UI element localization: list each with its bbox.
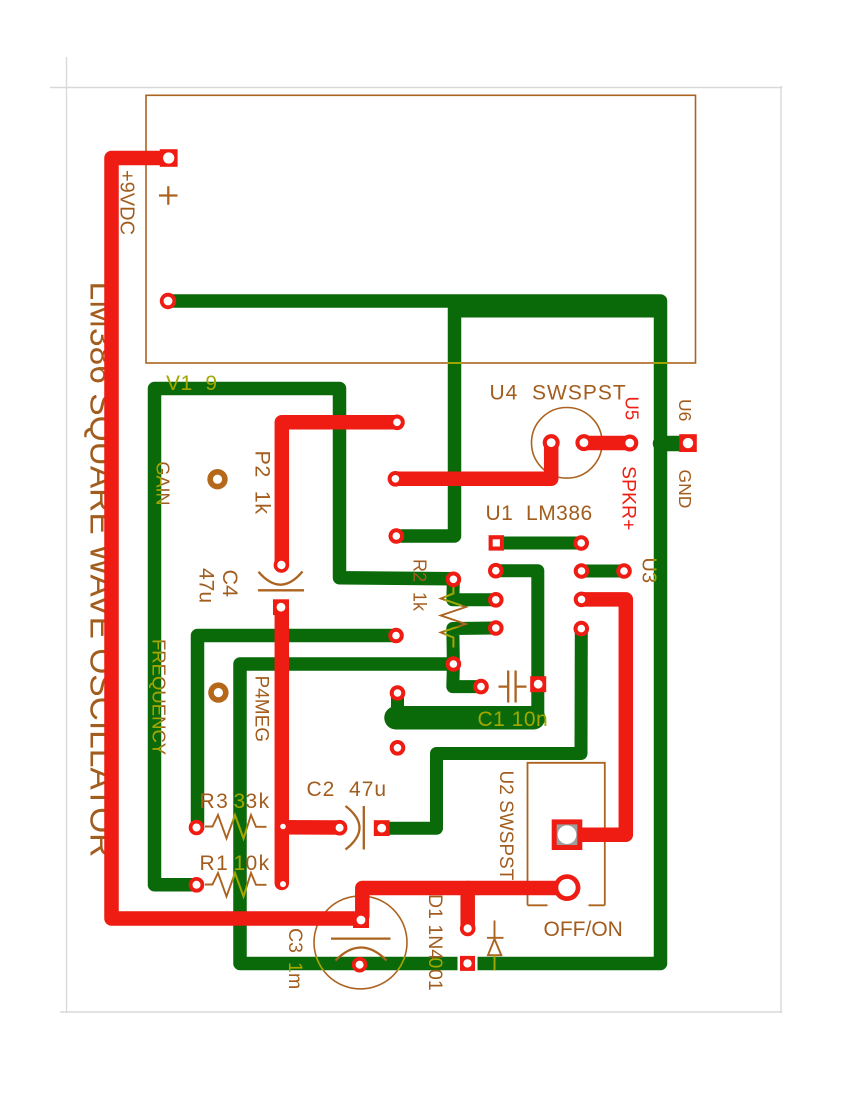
board outline top rectangle xyxy=(146,95,696,363)
via (396.3,536) xyxy=(389,528,405,544)
wire C3 pad up to OFF/ON and right to U2 round pad xyxy=(362,888,565,916)
wire inner parallel segment y=311.5 xyxy=(455,306,653,318)
via (397,422.3) xyxy=(389,415,405,431)
wire R2 top via to U1 pin3 left xyxy=(453,579,496,600)
pad U4 C / U5 SPKR+ xyxy=(621,435,638,452)
wire branch x=454.5 down to via(396.5,536) xyxy=(397,303,455,536)
donut pad FREQUENCY pot xyxy=(208,682,228,702)
diode D1 lead olive xyxy=(494,955,496,970)
svg-text:R1: R1 xyxy=(200,852,237,875)
pad U2 round OFF/ON xyxy=(554,874,581,901)
svg-text:V1 9: V1 9 xyxy=(166,372,218,395)
svg-text:U4 SWSPST: U4 SWSPST xyxy=(490,382,627,405)
svg-text:47u: 47u xyxy=(195,568,218,603)
pad C1 square xyxy=(530,676,546,692)
via R2 top (453.4,579.3) xyxy=(446,572,462,588)
pad U2 big square xyxy=(552,819,583,850)
svg-text:C4: C4 xyxy=(218,570,242,598)
resistor R1 zigzag xyxy=(205,873,267,897)
wire stub via(397.5,693) to bar xyxy=(391,693,404,710)
wire P2 top: corner to via(397,422) and down to C4 via xyxy=(282,422,397,563)
via (168,301) xyxy=(160,293,176,309)
switch U2 outline xyxy=(528,763,605,906)
pad +9VDC square xyxy=(160,149,178,167)
wire U4 pad B to pad C xyxy=(584,436,630,451)
svg-text:01: 01 xyxy=(424,969,446,991)
wire GND main loop: via(168,301) right, down right side, bottom, up left, to R2 bottom xyxy=(168,301,661,964)
svg-text:SPKR+: SPKR+ xyxy=(618,466,640,531)
via C3 center (359.6,964.7) xyxy=(352,957,368,973)
tick outline over green x=661 xyxy=(654,362,669,364)
via C2 left (339.6,827.7) xyxy=(332,820,348,836)
svg-text:R2 1k: R2 1k xyxy=(410,559,430,612)
via U1 pin6 right xyxy=(574,592,590,608)
wire U1 pin5 right to U2 square pad xyxy=(569,599,626,834)
svg-text:1: 1 xyxy=(284,962,306,973)
capacitor C4 plates xyxy=(258,589,304,591)
via (281,565) C4 top xyxy=(274,557,290,573)
via R3 left (196.5,827.5) xyxy=(189,820,205,836)
capacitor C3 circle olive part xyxy=(314,896,407,989)
wire U1 pin2 left down to C1 pad and bar xyxy=(496,571,538,716)
sheet border top xyxy=(50,87,783,89)
via (397.5,747.8) xyxy=(390,740,406,756)
svg-text:GND: GND xyxy=(675,470,695,509)
svg-text:R3: R3 xyxy=(200,790,237,813)
svg-text:U2 SWSPST: U2 SWSPST xyxy=(495,771,516,881)
via (397.5,693) xyxy=(390,685,406,701)
svg-text:+9VDC: +9VDC xyxy=(116,170,138,235)
olive overlays where silk crosses green copper xyxy=(205,363,668,989)
via U1 pin4 left xyxy=(488,620,504,636)
svg-text:C1 10n: C1 10n xyxy=(478,708,549,731)
sheet border right xyxy=(780,86,782,1013)
svg-text:0k: 0k xyxy=(246,852,271,875)
wire U1 pin7 via to via(624,571) xyxy=(582,565,625,578)
pad C4 bottom square xyxy=(273,599,289,615)
wire R2 bottom via to U1 pin4 left xyxy=(453,628,496,664)
svg-text:C3: C3 xyxy=(284,928,306,958)
svg-text:U6: U6 xyxy=(675,399,695,421)
via R2 bottom (453.4,664) xyxy=(446,656,462,672)
pad C3 bottom-left square xyxy=(353,912,369,928)
plus symbol xyxy=(159,186,178,205)
svg-text:U5: U5 xyxy=(622,397,643,421)
via (396,635.5) xyxy=(388,628,404,644)
via hole at T junction (283,826.5) xyxy=(280,824,286,830)
capacitor C1 plates xyxy=(499,671,527,703)
via U1 pin7 right xyxy=(574,563,590,579)
diode D1 symbol xyxy=(487,921,504,956)
capacitor C2 plates xyxy=(363,806,365,850)
wire +9VDC pad left, down, bottom to C3 pad xyxy=(112,158,360,919)
pad C2 square xyxy=(374,820,390,836)
sheet border left xyxy=(66,57,68,1013)
wire stub down to D1 via xyxy=(460,888,475,927)
via (624,571) xyxy=(616,563,632,579)
wire C4 pad down to R1 right via with T to C2 via xyxy=(275,608,290,883)
wire thick bar under C1 xyxy=(396,706,534,730)
svg-text:m: m xyxy=(284,973,306,989)
via R1 left (196.5,884.8) xyxy=(189,877,205,893)
svg-text:P2 1k: P2 1k xyxy=(251,451,275,515)
capacitor C3 plates xyxy=(331,937,391,939)
resistor R2 zigzag xyxy=(441,587,466,648)
svg-text:3k: 3k xyxy=(246,790,271,813)
svg-text:0: 0 xyxy=(424,958,446,969)
svg-text:OFF/ON: OFF/ON xyxy=(544,918,623,941)
via U1 pin5 right xyxy=(574,621,590,637)
resistor R2 zigzag olive part xyxy=(441,587,466,648)
via (395.4,478.8) xyxy=(388,471,404,487)
svg-text:U1 LM386: U1 LM386 xyxy=(486,502,593,525)
switch U4 circle xyxy=(532,408,603,479)
sheet border bottom xyxy=(60,1011,783,1013)
wire V1 loop: via(196.5,884.5) left leg up, top, down inner, to R2 top via xyxy=(155,389,454,885)
tick outline over green x=455 xyxy=(447,362,462,364)
via U1 pin3 left xyxy=(488,592,504,608)
wire FREQUENCY loop: via(196.5,827.5) up and right to via(396,635.5) xyxy=(198,636,397,828)
via (481,686.5) xyxy=(473,679,489,695)
pad U6 GND square xyxy=(679,434,697,452)
wire GND stub to U6 pad xyxy=(661,436,687,452)
pad U4 A xyxy=(543,434,560,451)
wire R2 bottom via down to via(481,686.5) xyxy=(453,664,481,687)
svg-text:P4MEG: P4MEG xyxy=(251,676,272,743)
wire U1 pin5 via down-left to C2 pad xyxy=(382,629,581,829)
via U1 pin2 left xyxy=(488,563,504,579)
resistor R3 zigzag xyxy=(205,815,267,839)
resistor R3 zigzag olive part xyxy=(205,815,267,839)
resistor R1 zigzag olive part xyxy=(205,873,267,897)
via D1 top (467.7,928.5) xyxy=(460,921,476,937)
pad U1 pin1 square xyxy=(489,535,504,550)
svg-text:3: 3 xyxy=(234,790,246,813)
donut pad GAIN pot xyxy=(207,469,227,489)
via R1 right (283,884.1) xyxy=(280,881,286,887)
pad D1 square on green xyxy=(458,953,478,973)
svg-text:1: 1 xyxy=(234,852,246,875)
wire U1 pin1 to pin8 via xyxy=(496,537,581,550)
pad U4 B xyxy=(575,434,592,451)
via U1 pin8 right xyxy=(573,535,589,551)
wire via(395.4,478.8) right and up to U4 pad A xyxy=(397,444,552,479)
capacitor C3 circle xyxy=(314,896,407,989)
svg-text:C2 47u: C2 47u xyxy=(307,778,388,801)
svg-text:D1 1N4: D1 1N4 xyxy=(424,894,446,960)
